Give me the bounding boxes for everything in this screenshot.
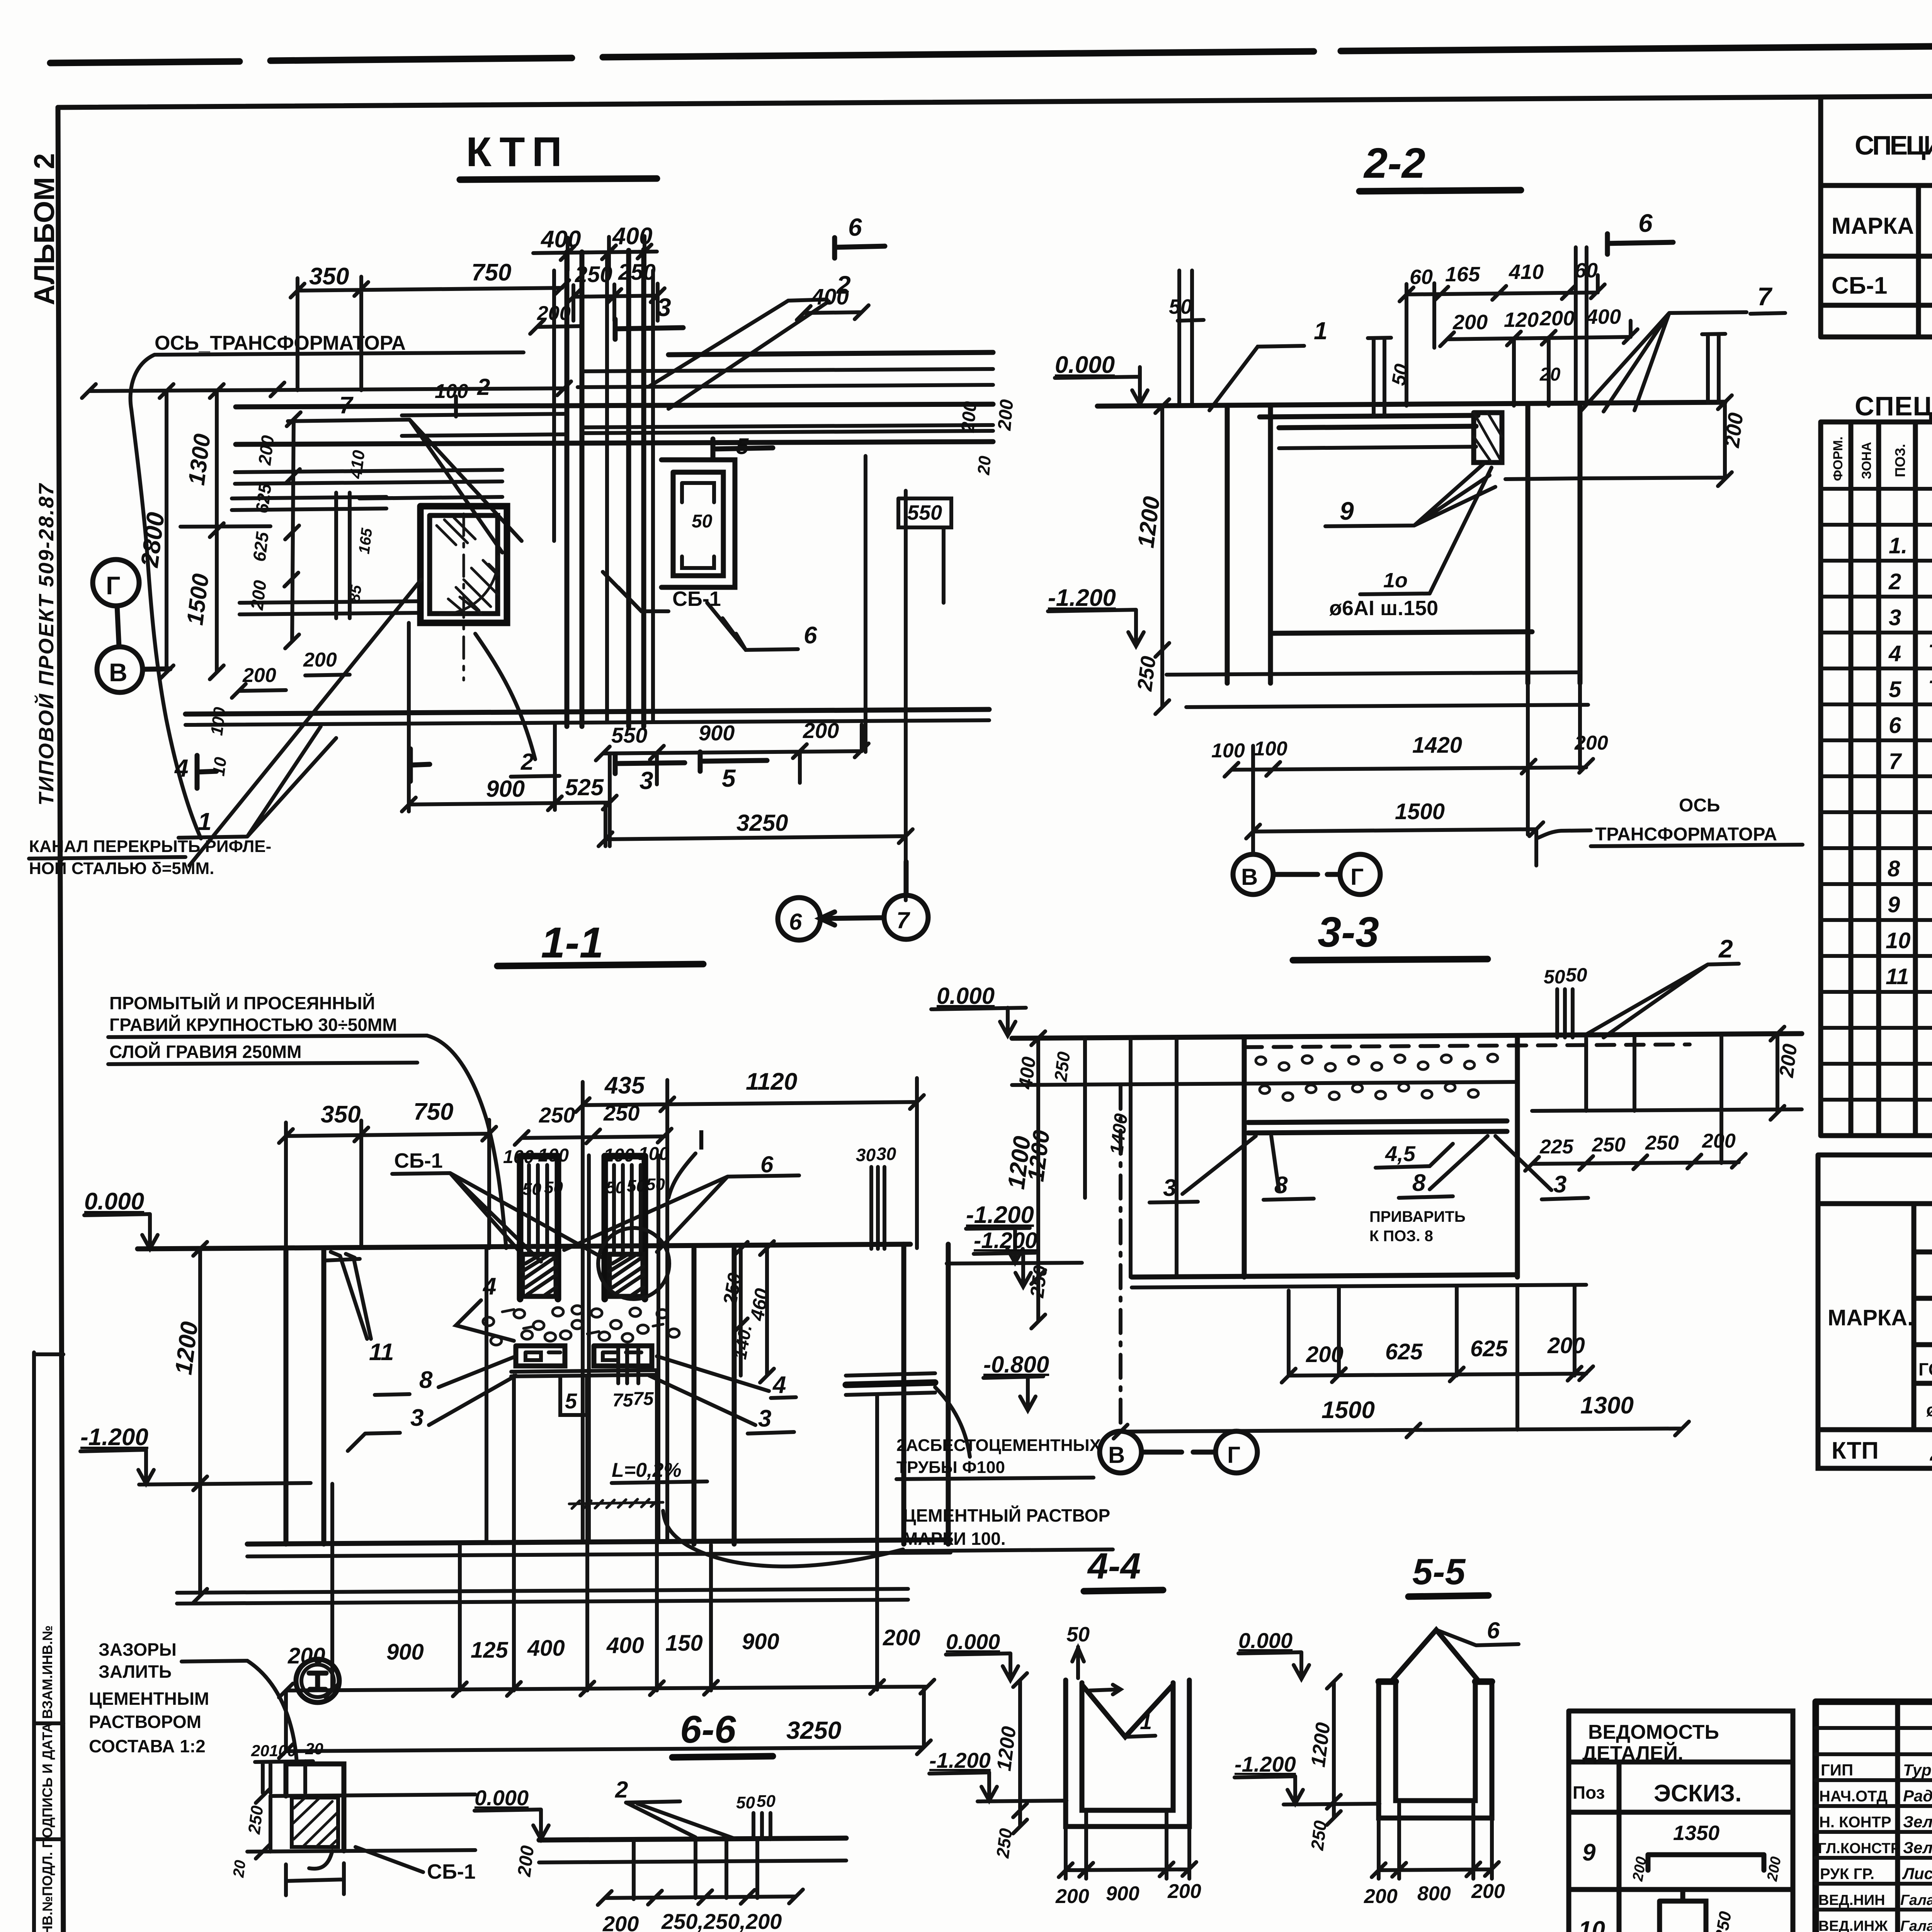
svg-text:10: 10	[1886, 928, 1911, 953]
svg-text:Г: Г	[106, 571, 120, 600]
svg-text:30: 30	[876, 1144, 896, 1164]
svg-text:НАЧ.ОТД: НАЧ.ОТД	[1819, 1788, 1888, 1805]
lower floor level line	[1186, 705, 1588, 707]
svg-text:1200: 1200	[1307, 1721, 1335, 1768]
4-4 bottom dims	[1059, 1812, 1196, 1879]
svg-text:ø6: ø6	[1926, 1400, 1932, 1420]
канал square	[420, 506, 507, 623]
gravel strips	[1256, 1054, 1498, 1100]
svg-text:200: 200	[1547, 1333, 1585, 1358]
svg-text:6: 6	[789, 909, 802, 935]
svg-text:Туринский: Туринский	[1903, 1761, 1932, 1779]
svg-text:200: 200	[1055, 1885, 1089, 1908]
middle line	[1012, 1082, 1517, 1085]
svg-text:11: 11	[1886, 964, 1909, 989]
svg-text:Зеленский: Зеленский	[1903, 1838, 1932, 1857]
svg-text:ФОРМ.: ФОРМ.	[1831, 437, 1845, 481]
top dashed border line	[50, 41, 1932, 63]
svg-text:5-5: 5-5	[1412, 1551, 1466, 1592]
svg-text:4: 4	[1888, 641, 1901, 666]
svg-text:4: 4	[482, 1273, 496, 1300]
В Г circles	[1233, 854, 1273, 895]
svg-text:ПОЗ.: ПОЗ.	[1892, 444, 1908, 477]
svg-text:20: 20	[305, 1740, 323, 1758]
svg-text:0.000: 0.000	[1238, 1628, 1293, 1653]
hatched beam sections	[522, 1254, 643, 1296]
svg-text:ГЛ.КОНСТР: ГЛ.КОНСТР	[1818, 1840, 1900, 1857]
svg-text:6: 6	[1487, 1617, 1500, 1643]
svg-text:250: 250	[992, 1827, 1016, 1859]
svg-text:75: 75	[612, 1390, 634, 1411]
svg-text:400: 400	[540, 226, 581, 253]
svg-text:РАСТВОРОМ: РАСТВОРОМ	[89, 1712, 201, 1732]
axis verticals	[1119, 1086, 1122, 1430]
svg-text:225: 225	[1539, 1136, 1574, 1158]
svg-text:1: 1	[198, 808, 212, 835]
svg-text:ТП: ТП	[1928, 676, 1932, 701]
svg-text:6: 6	[804, 622, 817, 649]
svg-text:2800: 2800	[135, 511, 170, 569]
svg-text:ТИПОВОЙ ПРОЕКТ 509-28.87: ТИПОВОЙ ПРОЕКТ 509-28.87	[34, 483, 58, 806]
svg-text:75: 75	[633, 1389, 654, 1409]
beams small strokes left middle	[232, 493, 386, 618]
towers (beam uprights)	[520, 1156, 645, 1299]
5-5 bottom dims	[1372, 1804, 1499, 1879]
svg-text:11: 11	[369, 1339, 394, 1366]
svg-text:150: 150	[665, 1631, 703, 1656]
svg-text:6-6: 6-6	[680, 1708, 736, 1751]
svg-text:250: 250	[1592, 1134, 1626, 1156]
5-5 channel with roof	[1379, 1682, 1492, 1818]
svg-text:200: 200	[514, 1844, 538, 1878]
svg-text:ОСЬ_ТРАНСФОРМАТОРА: ОСЬ_ТРАНСФОРМАТОРА	[155, 332, 406, 354]
table1 grid	[1821, 93, 1932, 337]
svg-text:10: 10	[1578, 1917, 1605, 1932]
svg-text:4: 4	[174, 754, 189, 782]
svg-text:3: 3	[1553, 1171, 1566, 1198]
gravel band dots	[483, 1306, 679, 1345]
svg-text:9: 9	[1888, 892, 1900, 917]
svg-text:2: 2	[1930, 1438, 1932, 1466]
ground line	[138, 1244, 910, 1249]
svg-text:400: 400	[1014, 1056, 1040, 1091]
svg-text:1200: 1200	[993, 1725, 1020, 1772]
titleblock outer	[1816, 1702, 1932, 1932]
svg-text:-1.200: -1.200	[1235, 1752, 1296, 1776]
6-6 body	[539, 1838, 846, 1840]
svg-text:СБ-1: СБ-1	[672, 587, 721, 611]
4-4 V notch	[1082, 1685, 1173, 1737]
svg-text:625: 625	[1470, 1336, 1508, 1361]
svg-text:I: I	[697, 1125, 705, 1156]
svg-text:ПРИВАРИТЬ: ПРИВАРИТЬ	[1369, 1208, 1466, 1225]
svg-text:50: 50	[692, 511, 713, 532]
verticals above line	[1368, 247, 1725, 416]
table2 grid	[1821, 422, 1932, 1136]
svg-text:4: 4	[772, 1372, 786, 1398]
svg-text:50: 50	[736, 1793, 755, 1812]
svg-text:5: 5	[1889, 677, 1901, 702]
svg-text:100: 100	[207, 706, 230, 736]
cell 5	[560, 1376, 587, 1415]
svg-text:250: 250	[1133, 655, 1160, 693]
svg-text:435: 435	[604, 1072, 645, 1099]
svg-text:200: 200	[602, 1912, 639, 1932]
svg-text:900: 900	[742, 1629, 779, 1654]
svg-text:750: 750	[413, 1099, 453, 1125]
svg-text:0.000: 0.000	[84, 1188, 144, 1215]
svg-text:900: 900	[699, 721, 735, 745]
svg-text:2-2: 2-2	[1363, 139, 1425, 187]
svg-text:1200: 1200	[170, 1320, 203, 1376]
table3 outer	[1818, 1155, 1932, 1468]
svg-text:250,250,200: 250,250,200	[661, 1909, 782, 1932]
svg-text:КТП: КТП	[1832, 1437, 1879, 1464]
svg-text:9: 9	[1582, 1839, 1596, 1866]
svg-text:ВЕД.ИНЖ: ВЕД.ИНЖ	[1818, 1918, 1888, 1932]
svg-text:3: 3	[1889, 605, 1901, 630]
svg-text:200: 200	[1702, 1130, 1736, 1152]
svg-text:60: 60	[1410, 265, 1433, 289]
svg-text:165: 165	[1445, 263, 1480, 286]
svg-text:200: 200	[957, 400, 981, 434]
svg-text:6: 6	[1889, 713, 1901, 738]
svg-text:7: 7	[1757, 282, 1773, 311]
svg-text:50: 50	[606, 1178, 625, 1197]
svg-text:ГИП: ГИП	[1821, 1761, 1853, 1779]
svg-text:50: 50	[646, 1175, 665, 1194]
hatch in канал corner	[437, 518, 475, 545]
svg-text:КАНАЛ ПЕРЕКРЫТЬ РИФЛЕ-: КАНАЛ ПЕРЕКРЫТЬ РИФЛЕ-	[29, 837, 271, 856]
svg-text:550: 550	[907, 501, 942, 524]
Г В circles left	[93, 560, 139, 606]
walls	[286, 1244, 948, 1544]
svg-text:525: 525	[565, 774, 604, 800]
left vertical dim 1200	[193, 1242, 207, 1603]
svg-text:550: 550	[611, 723, 647, 747]
svg-text:120: 120	[1504, 308, 1539, 332]
svg-text:4,5: 4,5	[1385, 1141, 1416, 1166]
svg-text:0.000: 0.000	[937, 983, 995, 1009]
svg-text:200: 200	[883, 1625, 920, 1650]
svg-text:-1.200: -1.200	[929, 1748, 991, 1772]
svg-text:ВЕДОМОСТЬ: ВЕДОМОСТЬ	[1588, 1721, 1719, 1743]
svg-text:1500: 1500	[1395, 799, 1445, 824]
svg-text:125: 125	[471, 1638, 509, 1663]
svg-text:250: 250	[245, 1804, 267, 1835]
svg-text:3250: 3250	[736, 810, 788, 836]
svg-text:ДЕТАЛЕЙ.: ДЕТАЛЕЙ.	[1582, 1742, 1683, 1765]
svg-text:400: 400	[1586, 305, 1621, 328]
svg-text:900: 900	[386, 1639, 424, 1665]
svg-text:3: 3	[639, 767, 653, 794]
svg-text:200: 200	[803, 718, 839, 743]
svg-text:900: 900	[486, 776, 525, 802]
svg-text:250: 250	[603, 1101, 639, 1125]
6-6 bottom dims	[598, 1889, 803, 1905]
svg-text:200: 200	[1167, 1880, 1201, 1903]
svg-text:900: 900	[1106, 1883, 1139, 1905]
svg-text:3: 3	[410, 1405, 423, 1431]
svg-text:20: 20	[974, 455, 995, 476]
svg-text:Г: Г	[1350, 864, 1364, 890]
svg-text:СПЕЦИФИКАЦИЯ К СХЕМЕ РАСПОЛ: СПЕЦИФИКАЦИЯ К СХЕМЕ РАСПОЛОЖЕНИЯ КТП	[1855, 130, 1932, 160]
svg-text:165: 165	[355, 527, 376, 555]
svg-text:3: 3	[758, 1405, 771, 1432]
svg-text:В: В	[109, 658, 128, 687]
titleblock left grid	[1898, 1702, 1932, 1932]
pit walls	[1244, 1037, 1517, 1277]
left frame line	[58, 107, 63, 1932]
svg-text:1-1: 1-1	[541, 918, 604, 967]
svg-text:2АСБЕСТОЦЕМЕНТНЫХ: 2АСБЕСТОЦЕМЕНТНЫХ	[896, 1436, 1101, 1455]
slab bottom lines	[1248, 1121, 1507, 1133]
bottom long lines	[185, 709, 989, 714]
svg-text:250: 250	[618, 260, 656, 285]
svg-text:0.000: 0.000	[1055, 352, 1115, 378]
svg-text:Г: Г	[1227, 1442, 1240, 1468]
svg-text:1120: 1120	[746, 1068, 797, 1095]
boxed dim 550	[898, 498, 951, 527]
svg-text:СБ-1: СБ-1	[427, 1860, 476, 1883]
svg-text:250: 250	[1307, 1819, 1330, 1852]
svg-text:К ПОЗ. 8: К ПОЗ. 8	[1369, 1228, 1433, 1245]
left vertical dim chains	[160, 384, 173, 679]
svg-text:200: 200	[994, 398, 1017, 432]
4-4 left dim	[1013, 1673, 1027, 1833]
gravel note leader	[427, 1036, 506, 1248]
svg-text:0.000: 0.000	[946, 1629, 1000, 1654]
svg-text:ТРАНСФОРМАТОРА: ТРАНСФОРМАТОРА	[1595, 824, 1777, 845]
wall verticals	[1227, 403, 1580, 683]
-0.800 pipe	[846, 1383, 935, 1385]
svg-text:L=0,2%: L=0,2%	[612, 1459, 682, 1481]
svg-text:7: 7	[1889, 749, 1902, 774]
top frame line	[58, 92, 1932, 107]
seat plates	[516, 1346, 652, 1366]
svg-text:В: В	[1241, 864, 1258, 890]
vertical extensions to circles	[409, 456, 944, 846]
svg-text:20100: 20100	[251, 1742, 296, 1760]
horizontal beam band right	[236, 352, 993, 444]
svg-text:МАРКИ 100.: МАРКИ 100.	[903, 1529, 1006, 1549]
vertical beam band	[567, 250, 644, 726]
svg-text:410: 410	[346, 449, 369, 480]
svg-text:1: 1	[1140, 1709, 1152, 1734]
svg-text:ВЕД.НИН: ВЕД.НИН	[1818, 1892, 1885, 1908]
svg-text:400: 400	[527, 1636, 565, 1661]
svg-text:ø6АI ш.150: ø6АI ш.150	[1329, 597, 1438, 620]
svg-text:Лисунов: Лисунов	[1902, 1864, 1932, 1883]
svg-text:5: 5	[565, 1389, 577, 1413]
svg-text:ТП: ТП	[1928, 640, 1932, 665]
svg-text:1500: 1500	[182, 572, 214, 627]
svg-text:В: В	[1108, 1442, 1125, 1468]
svg-text:5: 5	[722, 764, 736, 792]
svg-text:250: 250	[1645, 1132, 1679, 1154]
svg-text:8: 8	[1412, 1170, 1426, 1196]
svg-text:ЗАЗОРЫ: ЗАЗОРЫ	[99, 1639, 177, 1660]
svg-text:1300: 1300	[1580, 1392, 1634, 1419]
detail I circle	[296, 1659, 339, 1702]
svg-text:СОСТАВА 1:2: СОСТАВА 1:2	[89, 1736, 206, 1756]
svg-text:200: 200	[247, 579, 270, 611]
svg-text:800: 800	[1417, 1883, 1451, 1905]
svg-text:100: 100	[1211, 740, 1245, 762]
svg-text:ЭСКИЗ.: ЭСКИЗ.	[1654, 1780, 1742, 1807]
ось leader curve	[131, 355, 201, 838]
svg-text:-1.200: -1.200	[80, 1424, 148, 1451]
svg-text:50: 50	[1566, 964, 1587, 986]
svg-text:50: 50	[1066, 1623, 1090, 1646]
long axis dim line	[82, 381, 571, 398]
svg-text:3-3: 3-3	[1318, 908, 1379, 956]
svg-text:250: 250	[539, 1103, 575, 1127]
svg-text:10: 10	[209, 756, 230, 777]
4-4 channel	[1066, 1680, 1189, 1827]
svg-text:2: 2	[1888, 569, 1901, 594]
svg-text:200: 200	[1364, 1885, 1398, 1908]
svg-text:7: 7	[896, 907, 910, 933]
svg-text:20: 20	[1539, 364, 1561, 385]
ved-detaley grid	[1569, 1711, 1793, 1932]
svg-text:30: 30	[856, 1145, 876, 1165]
svg-text:Зеленский: Зеленский	[1903, 1813, 1932, 1831]
svg-text:200: 200	[254, 434, 278, 466]
main ground line	[1097, 402, 1725, 406]
svg-text:КТП: КТП	[466, 128, 569, 175]
svg-text:Галактионова: Галактионова	[1900, 1892, 1932, 1908]
svg-text:1200: 1200	[1133, 495, 1165, 549]
circles 6 7 bottom	[778, 898, 820, 940]
svg-text:50: 50	[522, 1180, 541, 1199]
svg-text:ЗОНА: ЗОНА	[1859, 442, 1874, 479]
svg-text:2: 2	[615, 1777, 628, 1803]
svg-text:8: 8	[1888, 856, 1900, 881]
svg-text:9: 9	[1340, 497, 1354, 525]
svg-text:100: 100	[435, 380, 468, 403]
svg-text:1500: 1500	[1321, 1397, 1375, 1423]
svg-text:Поз: Поз	[1573, 1782, 1605, 1803]
beam end cross-section box	[1474, 413, 1502, 463]
beam bottom line and seat	[1279, 447, 1580, 479]
svg-text:50: 50	[627, 1177, 646, 1196]
svg-text:625: 625	[1385, 1339, 1423, 1364]
svg-text:350: 350	[321, 1101, 361, 1128]
svg-text:6: 6	[760, 1151, 774, 1177]
svg-text:200: 200	[303, 649, 337, 671]
svg-text:410: 410	[1509, 260, 1544, 284]
svg-text:200: 200	[1629, 1855, 1650, 1883]
svg-text:2: 2	[1718, 934, 1733, 963]
svg-text:СБ-1: СБ-1	[1832, 272, 1887, 299]
svg-text:-1.200: -1.200	[966, 1202, 1034, 1228]
svg-text:350: 350	[309, 263, 349, 290]
svg-text:400: 400	[811, 284, 849, 310]
svg-text:625: 625	[249, 530, 272, 563]
svg-text:ПРОМЫТЫЙ И ПРОСЕЯННЫЙ: ПРОМЫТЫЙ И ПРОСЕЯННЫЙ	[109, 993, 375, 1013]
svg-text:1200: 1200	[1003, 1134, 1036, 1190]
svg-text:0.000: 0.000	[474, 1786, 529, 1810]
svg-text:ТРУБЫ Ф100: ТРУБЫ Ф100	[896, 1458, 1005, 1477]
svg-text:-1.200: -1.200	[974, 1228, 1037, 1253]
left horizontal beam band	[235, 470, 502, 614]
ground line	[1012, 1034, 1802, 1038]
svg-text:50: 50	[544, 1178, 563, 1197]
svg-text:1: 1	[1314, 317, 1328, 345]
svg-text:ОСЬ: ОСЬ	[1679, 795, 1720, 816]
svg-text:МАРКА.: МАРКА.	[1828, 1305, 1913, 1330]
svg-text:3: 3	[1163, 1175, 1176, 1201]
svg-text:250: 250	[1050, 1050, 1074, 1083]
svg-text:1420: 1420	[1412, 733, 1462, 758]
svg-text:ЗАЛИТЬ: ЗАЛИТЬ	[99, 1662, 172, 1682]
svg-text:250: 250	[1711, 1910, 1735, 1932]
svg-text:50: 50	[757, 1792, 776, 1811]
svg-text:200: 200	[1539, 307, 1575, 330]
5-5 left dim	[1327, 1675, 1341, 1825]
svg-text:6: 6	[1638, 209, 1653, 237]
svg-text:ЦЕМЕНТНЫМ: ЦЕМЕНТНЫМ	[89, 1689, 209, 1709]
left dims 1200 250	[1155, 399, 1169, 714]
svg-text:ГРАВИЙ КРУПНОСТЬЮ 30÷50ММ: ГРАВИЙ КРУПНОСТЬЮ 30÷50ММ	[109, 1015, 397, 1035]
В Г circles	[1100, 1431, 1141, 1473]
svg-text:МАРКА: МАРКА	[1832, 213, 1914, 239]
svg-text:2: 2	[520, 749, 534, 775]
right box	[662, 460, 735, 587]
svg-text:Радько: Радько	[1903, 1787, 1932, 1805]
balloon circle around right beam section	[598, 1228, 669, 1299]
bottom-left stamp column	[34, 1352, 63, 1932]
table3 grid	[1818, 1204, 1932, 1430]
svg-text:750: 750	[471, 259, 511, 286]
svg-text:8: 8	[419, 1367, 433, 1393]
svg-text:ИНВ.№ПОДЛ. ПОДПИСЬ И ДАТА ВЗ: ИНВ.№ПОДЛ. ПОДПИСЬ И ДАТА ВЗАМ.ИНВ.№	[39, 1625, 55, 1932]
svg-text:СПЕЦИФИКАЦИЯ К КТП: СПЕЦИФИКАЦИЯ К КТП	[1855, 391, 1932, 421]
right ledge	[1532, 1037, 1802, 1163]
канал hatch quarter	[440, 556, 498, 614]
svg-text:АЛЬБОМ 2: АЛЬБОМ 2	[28, 153, 60, 305]
svg-text:200: 200	[1471, 1880, 1505, 1903]
svg-text:1.: 1.	[1889, 533, 1907, 558]
svg-text:СБ-1: СБ-1	[394, 1149, 443, 1172]
bottom long level lines	[177, 1589, 908, 1604]
svg-text:3250: 3250	[786, 1716, 841, 1744]
svg-text:Галактионова: Галактионова	[1900, 1918, 1932, 1932]
svg-text:50: 50	[1544, 966, 1565, 988]
svg-text:50: 50	[1388, 362, 1413, 387]
svg-text:1300: 1300	[183, 432, 215, 487]
svg-text:6: 6	[848, 213, 862, 241]
svg-text:-1.200: -1.200	[1048, 585, 1116, 611]
svg-text:ГОСТ 5781-82*: ГОСТ 5781-82*	[1918, 1359, 1932, 1379]
svg-text:100: 100	[1254, 738, 1287, 760]
svg-text:200: 200	[1764, 1855, 1784, 1883]
svg-text:НОЙ СТАЛЬЮ δ=5ММ.: НОЙ СТАЛЬЮ δ=5ММ.	[29, 858, 214, 878]
svg-text:200: 200	[1452, 311, 1488, 334]
svg-text:РУК ГР.: РУК ГР.	[1820, 1866, 1874, 1883]
svg-text:3: 3	[657, 293, 671, 321]
svg-text:Н. КОНТР: Н. КОНТР	[1819, 1814, 1891, 1831]
dashed top of slab	[1244, 1044, 1690, 1047]
svg-text:4-4: 4-4	[1087, 1546, 1141, 1587]
svg-text:20: 20	[230, 1859, 249, 1879]
svg-text:-0.800: -0.800	[983, 1352, 1049, 1378]
beam deck	[1260, 415, 1478, 428]
svg-text:СЛОЙ ГРАВИЯ 250ММ: СЛОЙ ГРАВИЯ 250ММ	[109, 1042, 301, 1062]
pit floor	[247, 1540, 951, 1544]
svg-text:400: 400	[606, 1633, 644, 1658]
